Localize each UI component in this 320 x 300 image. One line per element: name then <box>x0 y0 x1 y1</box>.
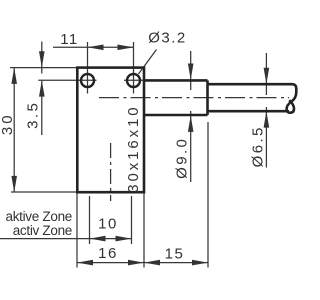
cable axis centerline <box>99 97 289 99</box>
hole 2 (dia 3.2) <box>127 74 140 87</box>
arrowhead 16 right <box>128 260 144 266</box>
dimension 3.5 upper arrow shaft <box>41 42 43 74</box>
arrowhead dia 9.0 lower (up) <box>188 116 194 132</box>
arrowhead dia 9.0 upper (down) <box>188 64 194 80</box>
body right edge extension line <box>143 192 145 267</box>
sleeve top edge <box>144 79 208 82</box>
dimension 10 right extension line <box>131 196 133 244</box>
svg-text:15: 15 <box>165 245 185 262</box>
body vertical centerline <box>110 143 112 201</box>
cable bottom edge <box>208 110 290 113</box>
dimension 30 top extension line <box>10 67 77 69</box>
dimension 3.5 lower arrow shaft <box>41 80 43 135</box>
dimension dia 9.0 upper arrow shaft <box>190 51 192 90</box>
dimension 15 line <box>144 262 208 264</box>
sleeve end edge <box>206 80 209 115</box>
dimension 11 right extension line through hole 2 <box>133 42 135 94</box>
svg-text:3.5: 3.5 <box>25 101 42 129</box>
svg-text:30: 30 <box>0 112 16 135</box>
arrowhead 16 left <box>77 260 93 266</box>
svg-text:Ø9.0: Ø9.0 <box>174 137 191 179</box>
sleeve end extension line <box>207 122 209 268</box>
svg-text:Ø6.5: Ø6.5 <box>250 125 267 167</box>
arrowhead 11 right <box>118 45 134 51</box>
arrowhead 11 left <box>88 45 104 51</box>
dimension 10 left extension line <box>89 196 91 244</box>
svg-text:Ø3.2: Ø3.2 <box>148 29 187 46</box>
leader line for diameter 3.2 <box>139 50 157 75</box>
cable top edge <box>208 83 293 86</box>
hole 1 (dia 3.2) <box>81 74 94 87</box>
dimension 30 bottom extension line <box>11 191 77 193</box>
arrowhead dia 6.5 upper (down) <box>264 68 270 84</box>
cable break end <box>287 84 297 113</box>
active zone leader line <box>0 238 90 240</box>
arrowhead 10 left <box>90 236 106 242</box>
arrowhead 3.5 lower (up) <box>39 80 45 96</box>
arrowhead 15 left <box>144 260 160 266</box>
arrowhead 30 bottom (down) <box>11 176 17 192</box>
arrowhead 3.5 upper (down) <box>39 51 45 67</box>
svg-text:11: 11 <box>60 31 79 48</box>
sensor body outline <box>77 68 144 193</box>
arrowhead dia 6.5 lower (up) <box>264 111 270 127</box>
sleeve bottom edge <box>144 114 208 117</box>
dimension dia 9.0 lower arrow shaft <box>190 111 192 182</box>
dimension 11 left extension line through hole 1 <box>87 42 89 94</box>
svg-text:16: 16 <box>98 245 118 262</box>
hole 2 horizontal centerline <box>124 79 146 81</box>
dimension 16 line <box>77 262 144 264</box>
dimension dia 6.5 lower arrow shaft <box>265 107 267 168</box>
dimension 10 line <box>90 238 132 240</box>
svg-text:10: 10 <box>98 216 118 233</box>
arrowhead 10 right <box>116 236 132 242</box>
arrowhead 30 top (up) <box>11 68 17 84</box>
dimension 11 line <box>53 46 134 48</box>
svg-text:activ Zone: activ Zone <box>13 223 72 238</box>
svg-text:aktive Zone: aktive Zone <box>6 209 73 224</box>
body left edge extension line <box>76 192 78 267</box>
dimension 30 line <box>13 68 15 193</box>
hole 1 horizontal centerline <box>38 79 96 81</box>
svg-text:30x16x10: 30x16x10 <box>125 104 142 192</box>
arrowhead 15 right <box>192 260 208 266</box>
dimension dia 6.5 upper arrow shaft <box>265 53 267 95</box>
